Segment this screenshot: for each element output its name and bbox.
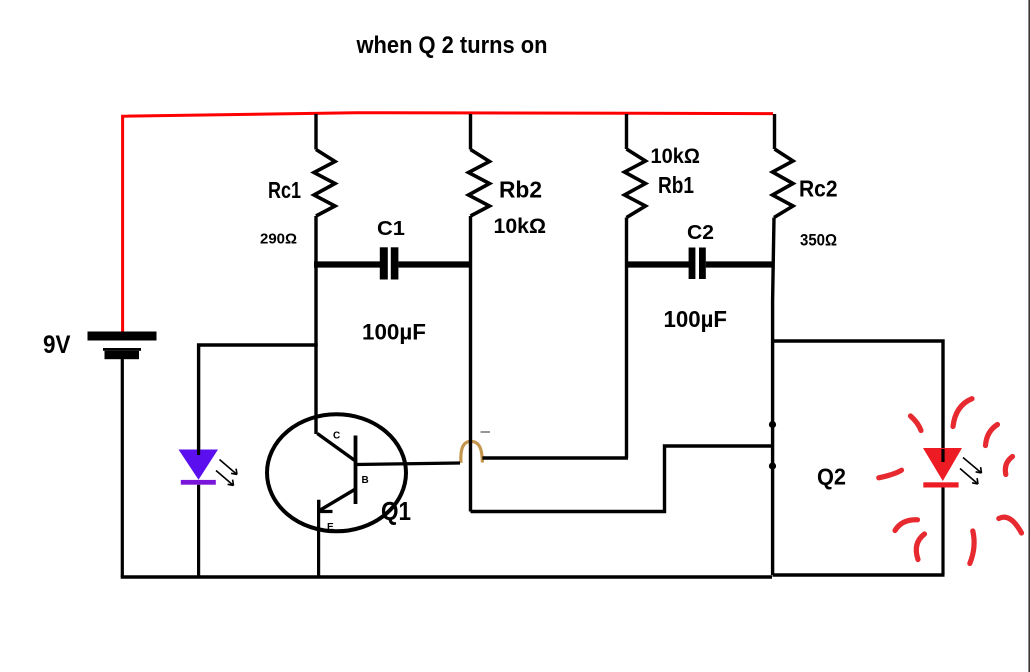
wire Q1 emitter to bottom rail	[317, 500, 320, 577]
resistor Rb1	[625, 149, 646, 218]
LED D2 emission arrows	[960, 458, 982, 485]
svg-text:100µF: 100µF	[664, 306, 728, 332]
wire Rc1 to collector node	[314, 216, 317, 434]
wire battery negative	[121, 359, 124, 577]
svg-text:Rb1: Rb1	[658, 172, 694, 198]
wire Rb2 to Q2 base	[471, 446, 773, 512]
resistor Rc1	[314, 150, 335, 217]
transistor Q1 emitter with arrow	[319, 489, 356, 512]
wire to LED D1 branch	[199, 345, 318, 450]
capacitor C2	[625, 248, 773, 280]
svg-text:B: B	[362, 475, 369, 486]
svg-text:Rc2: Rc2	[799, 176, 838, 202]
label minus mark	[481, 431, 491, 433]
LED D1 emission arrows	[216, 460, 237, 486]
LED D1 (purple)	[179, 450, 219, 485]
LED D2 (red)	[923, 448, 962, 488]
wire Rc2 top	[773, 114, 776, 149]
wire Rb1 column	[625, 218, 628, 459]
svg-text:290Ω: 290Ω	[260, 231, 297, 248]
wire Rb1 top	[625, 114, 628, 149]
svg-text:E: E	[327, 522, 334, 533]
svg-text:when Q 2 turns on: when Q 2 turns on	[356, 32, 548, 59]
wire Q2 column	[773, 218, 774, 576]
svg-text:Q1: Q1	[381, 496, 411, 526]
wire hop jumper over Rb2 column	[461, 441, 483, 463]
wire Rb2 top	[469, 114, 472, 150]
svg-text:350Ω: 350Ω	[800, 232, 837, 250]
node Q2 base	[769, 462, 776, 469]
svg-text:Rc1: Rc1	[268, 177, 301, 203]
svg-text:10kΩ: 10kΩ	[651, 144, 701, 168]
resistor Rb2	[469, 150, 490, 217]
svg-text:C: C	[333, 431, 340, 442]
transistor Q1 base lead	[356, 463, 461, 465]
wire LED D2 loop top	[773, 341, 944, 449]
transistor Q1 base bar	[354, 436, 358, 505]
wire bottom rail	[121, 575, 772, 578]
wire Q1 base to Rb1	[482, 456, 628, 459]
battery BT1 plates	[88, 332, 157, 360]
svg-text:Rb2: Rb2	[499, 177, 542, 203]
wire LED D2 loop bottom	[773, 573, 945, 576]
wire LED D1 to bottom rail	[197, 485, 200, 577]
svg-text:9V: 9V	[43, 331, 71, 359]
resistor Rc2	[773, 149, 794, 218]
node Q2 collector	[769, 421, 776, 428]
svg-text:100µF: 100µF	[362, 320, 426, 345]
transistor Q1 body	[267, 414, 406, 531]
wire Rc1 top	[314, 114, 317, 150]
capacitor C1	[314, 247, 471, 279]
wire red positive rail	[123, 113, 773, 332]
svg-text:C2: C2	[687, 221, 714, 244]
wire LED D2 to bottom	[941, 488, 944, 576]
LED D2 light rays	[879, 399, 1022, 564]
wire Rb2 column	[469, 216, 472, 512]
transistor Q1 collector lead	[317, 434, 355, 462]
svg-text:Q2: Q2	[817, 464, 846, 490]
svg-text:10kΩ: 10kΩ	[494, 215, 547, 238]
screen right edge	[1028, 0, 1030, 672]
svg-text:C1: C1	[377, 217, 405, 240]
